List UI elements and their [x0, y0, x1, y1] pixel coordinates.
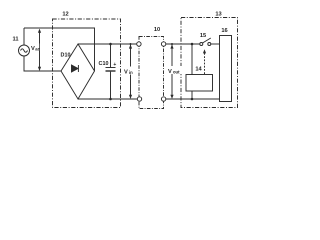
- svg-text:12: 12: [62, 12, 68, 18]
- Vac measurement arrow: [38, 29, 41, 71]
- svg-text:V: V: [124, 70, 128, 76]
- svg-text:in: in: [129, 70, 133, 75]
- svg-text:11: 11: [12, 37, 18, 43]
- wire dc positive rail: [78, 43, 137, 45]
- junction dot cap top: [109, 43, 112, 46]
- wire ac source bottom lead: [24, 56, 61, 71]
- svg-text:V: V: [168, 69, 172, 75]
- ac source sine symbol: [21, 49, 28, 52]
- wire bottom rail left: [78, 98, 137, 100]
- ac source 11 circle: [19, 45, 30, 56]
- svg-text:out: out: [173, 70, 180, 75]
- wire switch to load: [211, 43, 220, 45]
- load 16: [220, 36, 232, 102]
- svg-text:13: 13: [215, 12, 221, 18]
- svg-text:+: +: [113, 62, 116, 68]
- junction dot cap bottom: [109, 98, 112, 101]
- junction dot at controller feed: [191, 43, 194, 46]
- V in measurement arrow: [129, 43, 132, 99]
- terminal circle top left: [137, 42, 141, 46]
- enclosure box 13 (dash-dot): [181, 18, 238, 108]
- svg-text:16: 16: [221, 28, 227, 34]
- capacitor C10 top lead: [110, 44, 112, 68]
- control linkage dashed arrow to switch: [203, 49, 206, 75]
- controller bottom stub: [191, 91, 193, 99]
- label V in: [124, 67, 138, 76]
- terminal circle bottom left: [137, 97, 141, 101]
- svg-text:C10: C10: [99, 61, 109, 67]
- label Vac: [31, 44, 41, 53]
- junction dot controller bottom: [191, 98, 194, 101]
- wire bottom rail right: [166, 98, 220, 100]
- switch 15 lever: [203, 38, 211, 43]
- svg-text:10: 10: [154, 27, 160, 33]
- svg-text:14: 14: [195, 67, 202, 73]
- connector outline 10 (dash-dot): [139, 37, 164, 109]
- wire ac source top lead: [23, 28, 25, 45]
- enclosure box 12 (dash-dot): [53, 19, 121, 108]
- V out measurement arrow: [170, 43, 173, 99]
- svg-text:ac: ac: [35, 47, 40, 52]
- terminal circle top right: [161, 42, 165, 46]
- capacitor C10 plates: [106, 68, 116, 72]
- controller box 14: [186, 75, 213, 92]
- wire top rail into box 13: [166, 43, 200, 45]
- terminal circle bottom right: [161, 97, 165, 101]
- wire junction to controller 14: [191, 44, 193, 75]
- bridge diode symbol: [72, 65, 79, 72]
- switch 15 contacts: [200, 43, 211, 46]
- capacitor C10 bottom lead: [110, 72, 112, 99]
- svg-text:D10: D10: [61, 53, 71, 59]
- bridge rectifier D10 diamond: [61, 44, 95, 99]
- wire top rail from source to bridge: [24, 28, 95, 71]
- svg-text:15: 15: [200, 33, 206, 39]
- label V out: [168, 66, 183, 75]
